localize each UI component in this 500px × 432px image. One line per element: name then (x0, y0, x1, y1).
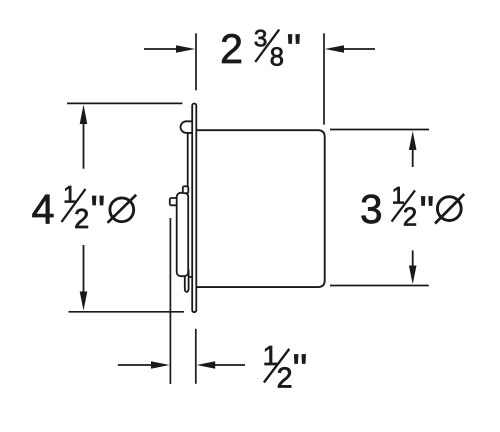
dimension 3-1/2 right: bottom extension line (330, 285, 429, 287)
dimension 4-1/2 left: diameter symbol slash (108, 195, 137, 223)
dimension 2-3/8 top: fraction slash (255, 30, 279, 62)
dimension 3-1/2 right: up arrow wire (412, 149, 414, 167)
dimension 4-1/2 left: up arrow wire (83, 123, 85, 169)
dimension 2-3/8 top: left arrow wire (144, 48, 178, 50)
dimension 2-3/8 top: right arrow wire (342, 48, 375, 50)
dimension 3-1/2 right: diameter symbol slash (435, 194, 464, 224)
dimension 4-1/2 left: diameter symbol circle (110, 198, 134, 222)
dimension 1/2 bottom: left extension line (169, 218, 171, 384)
svg-text:3: 3 (360, 186, 383, 232)
svg-text:4: 4 (32, 186, 55, 233)
dimension 1/2 bottom: right arrowhead (197, 361, 216, 369)
small tab on bracket top (183, 186, 189, 193)
dimension 3-1/2 right: up arrowhead (409, 131, 417, 150)
svg-text:2: 2 (220, 25, 243, 72)
dimension 4-1/2 left: down arrow wire (83, 245, 85, 293)
svg-text:": " (287, 25, 302, 72)
dimension 1/2 bottom: left arrow wire (118, 364, 153, 366)
svg-text:8: 8 (270, 44, 284, 72)
body can of device (196, 130, 325, 287)
dimension 4-1/2 left: bottom extension line (69, 311, 185, 313)
svg-text:": " (420, 187, 435, 234)
terminal lug square (170, 198, 178, 205)
svg-text:2: 2 (403, 202, 417, 232)
dimension 3-1/2 right: down arrow wire (412, 250, 414, 266)
dimension 1/2 bottom: right extension line (195, 329, 197, 384)
flange bezel edge-on (192, 104, 196, 313)
svg-text:": " (91, 187, 106, 234)
dimension 2-3/8 top: left arrowhead (176, 45, 195, 53)
magnet bracket (177, 193, 189, 276)
dimension 2-3/8 top: right extension line (323, 33, 325, 124)
svg-text:2: 2 (277, 362, 293, 394)
dimension 2-3/8 top: right arrowhead (325, 45, 344, 53)
dimension 4-1/2 left: up arrowhead (80, 105, 88, 124)
svg-text:": " (293, 345, 308, 392)
rear frame plate edge-on (188, 133, 194, 277)
dimension 2-3/8 top: left extension line (195, 33, 197, 90)
dimension 3-1/2 right: top extension line (330, 129, 429, 131)
svg-text:2: 2 (74, 203, 89, 234)
dimension 3-1/2 right: down arrowhead (409, 266, 417, 285)
dimension 1/2 bottom: right arrow wire (214, 364, 245, 366)
mounting clip at top (181, 121, 193, 133)
dimension 1/2 bottom: fraction slash (264, 349, 289, 383)
dimension 4-1/2 left: top extension line (67, 102, 182, 104)
dimension 3-1/2 right: fraction slash (392, 190, 415, 221)
bottom terminal foot (185, 270, 189, 292)
dimension 4-1/2 left: fraction slash (62, 189, 86, 222)
dimension 4-1/2 left: down arrowhead (80, 292, 88, 311)
dimension 3-1/2 right: diameter symbol circle (437, 197, 461, 221)
dimension 1/2 bottom: left arrowhead (151, 361, 170, 369)
